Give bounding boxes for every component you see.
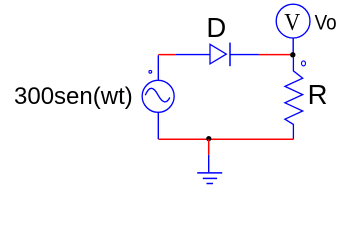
svg-text:300sen(wt): 300sen(wt): [14, 83, 133, 110]
diode D1 right lead wire: [230, 54, 259, 56]
svg-text:V: V: [284, 9, 300, 36]
wire top-left red segment: [158, 54, 176, 56]
pin marker node source top: [149, 70, 152, 73]
wire source bottom lead: [157, 112, 159, 139]
svg-text:Vo: Vo: [315, 12, 337, 35]
svg-text:D: D: [206, 12, 226, 43]
diode D1 left lead wire: [176, 54, 210, 56]
junction node ground: [206, 136, 211, 141]
ground: [197, 173, 222, 184]
svg-text:R: R: [308, 79, 328, 110]
wire bottom rail red: [159, 138, 294, 140]
wire ground lead blue: [208, 155, 210, 172]
voltage source V1: [142, 80, 174, 112]
diode D1: [210, 43, 230, 67]
resistor R1: [285, 58, 303, 140]
wire voltmeter lead: [292, 38, 294, 55]
junction node Vo: [290, 52, 295, 57]
wire ground stub red: [208, 139, 210, 155]
wire source top lead: [157, 55, 159, 80]
pin marker node resistor top: [302, 61, 306, 66]
wire top-right red segment: [259, 54, 293, 56]
voltmeter U1: [276, 4, 310, 38]
